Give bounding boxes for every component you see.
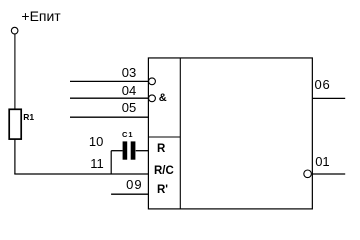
resistor R1 bbox=[9, 109, 21, 139]
wire output 06 bbox=[312, 97, 345, 99]
wire input 03 bbox=[70, 80, 148, 82]
wire output 01 bbox=[312, 173, 345, 175]
net label +Eпит bbox=[21, 9, 60, 23]
wire capacitor right segment to pin R bbox=[136, 150, 149, 152]
op-amp U1 IC body bbox=[148, 58, 312, 209]
wire capacitor left segment bbox=[111, 150, 122, 152]
IC inner divider bbox=[179, 58, 181, 209]
wire input 04 bbox=[70, 97, 148, 99]
pin label R bbox=[157, 144, 165, 156]
pin number 05 bbox=[122, 101, 136, 114]
value label C1 bbox=[122, 131, 134, 139]
wire input 05 bbox=[70, 116, 148, 118]
value label R1 bbox=[23, 113, 34, 122]
pin label R' bbox=[157, 185, 168, 197]
pin number 10 bbox=[89, 135, 103, 148]
pin number 01 bbox=[315, 155, 329, 168]
inversion bubble output 01 bbox=[304, 170, 312, 178]
pin number 06 bbox=[315, 78, 331, 91]
pin number 11 bbox=[90, 157, 104, 170]
capacitor C1 plates bbox=[123, 141, 128, 159]
gate symbol & bbox=[159, 93, 167, 104]
wire input 09 to R' pin bbox=[111, 193, 148, 195]
inversion bubble input 04 bbox=[149, 95, 156, 102]
wire bottom run to R/C pin bbox=[14, 173, 148, 175]
pin number 04 bbox=[122, 84, 136, 97]
pin label R/C bbox=[154, 166, 174, 178]
wire R1 bottom down bbox=[14, 139, 16, 174]
inversion bubble input 03 bbox=[149, 78, 156, 85]
pin number 03 bbox=[122, 66, 136, 79]
wire stub junction to capacitor line bbox=[110, 151, 112, 174]
IC section divider above R bbox=[148, 136, 180, 138]
wire from terminal to R1 bbox=[14, 34, 16, 109]
terminal +Eпит bbox=[11, 27, 18, 34]
pin number 09 bbox=[126, 178, 142, 191]
